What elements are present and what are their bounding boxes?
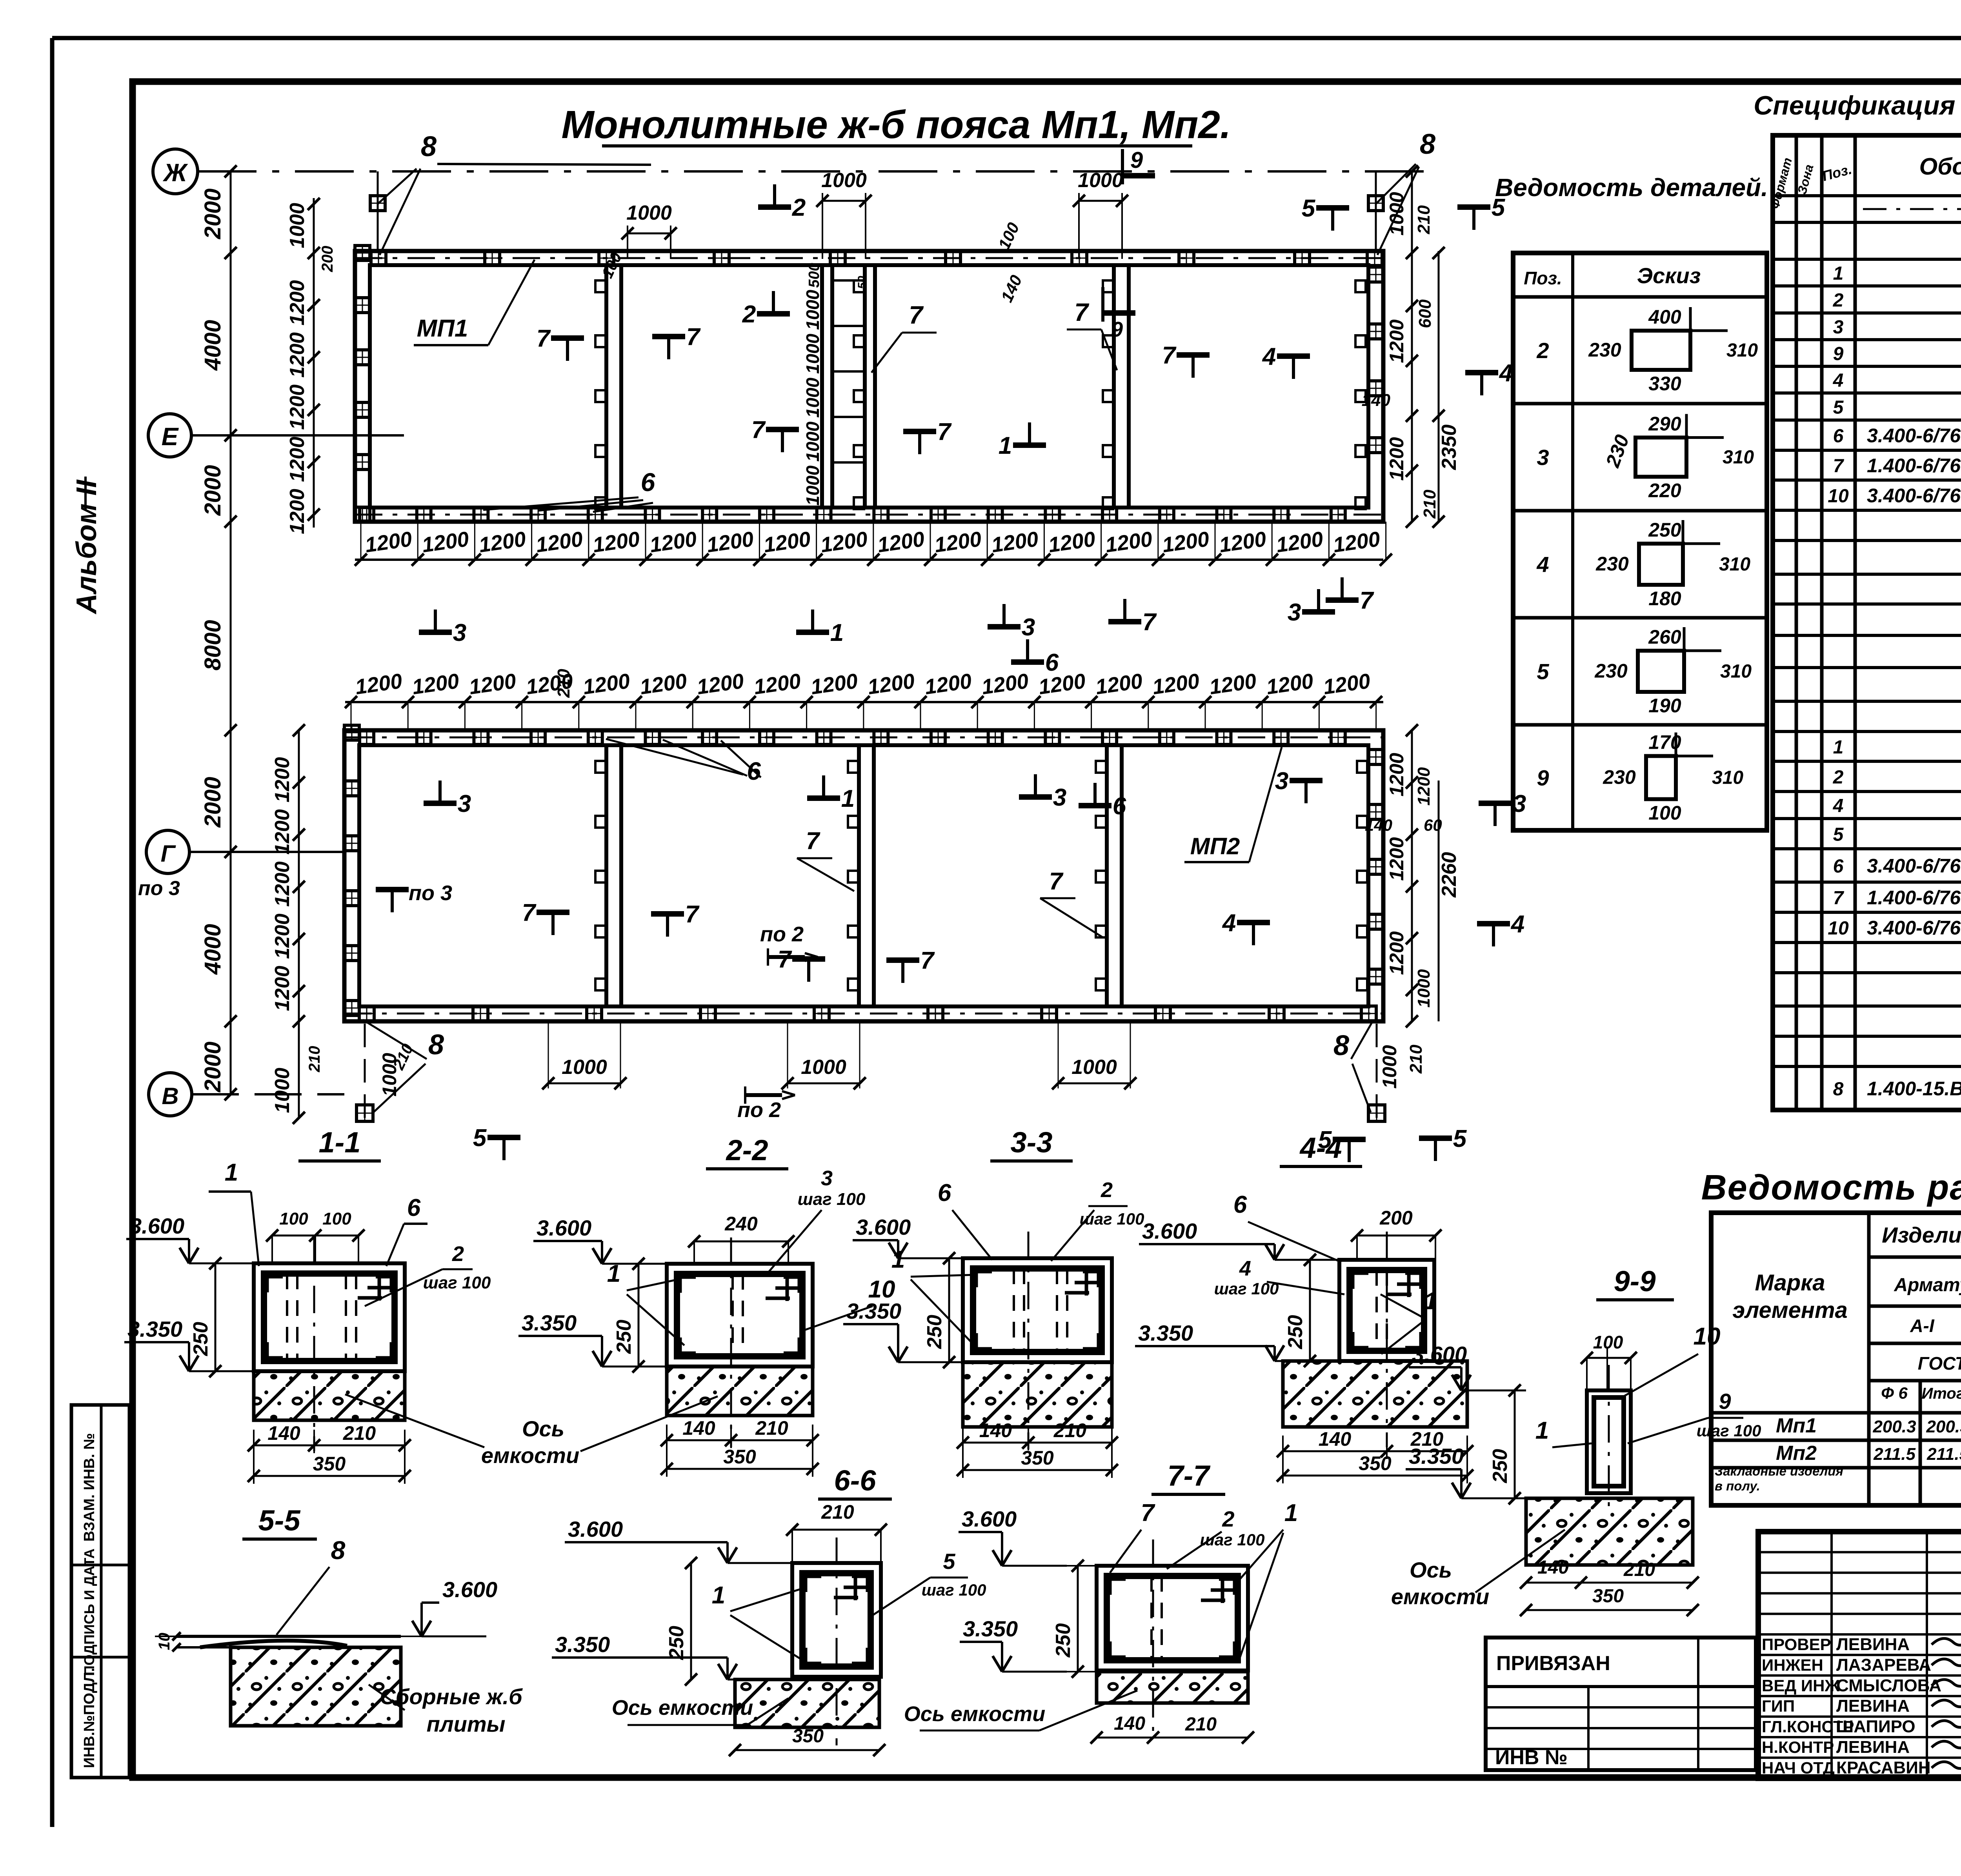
svg-text:Мп1: Мп1	[1776, 1414, 1817, 1437]
svg-text:7: 7	[1049, 868, 1064, 895]
embedded plates right wall	[1368, 267, 1383, 282]
svg-text:1: 1	[1833, 263, 1844, 284]
top small dims 1000	[628, 233, 671, 235]
svg-text:5: 5	[1833, 824, 1844, 845]
svg-text:ШАПИРО: ШАПИРО	[1836, 1717, 1916, 1736]
svg-text:230: 230	[1594, 660, 1628, 682]
svg-text:А-I: А-I	[1910, 1316, 1935, 1336]
privyazan table	[1486, 1638, 1756, 1770]
svg-text:1200: 1200	[1386, 837, 1408, 881]
svg-text:210: 210	[1185, 1714, 1217, 1735]
svg-text:240: 240	[724, 1213, 758, 1235]
svg-text:Поз.: Поз.	[1524, 268, 1562, 288]
svg-text:230: 230	[1603, 766, 1636, 788]
svg-text:шаг 100: шаг 100	[423, 1273, 491, 1292]
svg-text:250: 250	[1284, 1315, 1307, 1350]
svg-text:7: 7	[522, 899, 537, 926]
svg-text:1000: 1000	[802, 421, 823, 462]
svg-text:1: 1	[891, 1246, 905, 1273]
svg-text:210: 210	[1420, 489, 1439, 519]
svg-text:1: 1	[712, 1582, 725, 1609]
svg-text:3.350: 3.350	[1409, 1444, 1464, 1468]
svg-text:1200: 1200	[1414, 767, 1433, 806]
svg-text:140: 140	[1362, 391, 1391, 410]
axis Г circle	[146, 830, 189, 873]
svg-text:10: 10	[1694, 1323, 1721, 1350]
svg-text:4: 4	[1536, 552, 1549, 577]
svg-text:шаг 100: шаг 100	[1697, 1421, 1761, 1440]
svg-text:250: 250	[613, 1320, 635, 1354]
svg-text:210: 210	[1414, 205, 1433, 235]
markers inside bottom plan	[376, 887, 409, 892]
svg-text:1: 1	[999, 432, 1012, 459]
svg-text:140: 140	[1365, 816, 1392, 834]
svg-text:Ось емкости: Ось емкости	[904, 1702, 1045, 1726]
svg-text:50: 50	[856, 276, 869, 289]
svg-text:170: 170	[1648, 731, 1681, 753]
svg-text:1200: 1200	[271, 913, 294, 959]
svg-text:5: 5	[1537, 659, 1549, 684]
svg-text:200: 200	[1379, 1207, 1413, 1229]
svg-text:по 3: по 3	[138, 877, 180, 900]
top plan dividers	[604, 265, 608, 508]
svg-text:310: 310	[1726, 340, 1758, 361]
top plan walls МП1	[355, 251, 1383, 522]
svg-text:7-7: 7-7	[1168, 1459, 1211, 1492]
svg-text:140: 140	[1114, 1713, 1145, 1734]
svg-text:210: 210	[554, 669, 573, 698]
svg-text:8: 8	[421, 131, 437, 162]
svg-text:1000: 1000	[802, 289, 823, 330]
svg-text:5: 5	[943, 1549, 955, 1574]
embedded plates top wall	[371, 251, 386, 266]
svg-text:3: 3	[821, 1166, 833, 1190]
svg-text:1: 1	[1284, 1499, 1298, 1527]
markers between plans	[419, 630, 452, 635]
svg-text:210: 210	[1053, 1419, 1087, 1441]
svg-text:ЛЕВИНА: ЛЕВИНА	[1836, 1696, 1910, 1716]
svg-text:230: 230	[1588, 339, 1621, 361]
svg-text:250: 250	[1052, 1623, 1075, 1658]
svg-text:Монолитные ж-б пояса Мп1, Мп2.: Монолитные ж-б пояса Мп1, Мп2.	[561, 103, 1231, 147]
svg-text:210: 210	[1623, 1559, 1655, 1580]
svg-text:1: 1	[607, 1260, 620, 1287]
svg-text:140: 140	[267, 1422, 300, 1444]
svg-text:1: 1	[841, 785, 855, 812]
svg-text:3-3: 3-3	[1011, 1126, 1053, 1159]
svg-text:210: 210	[306, 1046, 323, 1073]
svg-text:310: 310	[1712, 768, 1743, 788]
svg-text:3: 3	[1275, 768, 1288, 795]
svg-text:1.400-15.В1.420-03: 1.400-15.В1.420-03	[1867, 1078, 1961, 1100]
svg-text:3.600: 3.600	[129, 1214, 184, 1238]
svg-text:200: 200	[319, 246, 336, 273]
svg-text:9: 9	[1719, 1389, 1731, 1414]
embedded plates bottom wall	[360, 508, 374, 522]
svg-text:3.350: 3.350	[963, 1616, 1018, 1641]
svg-text:1: 1	[1535, 1417, 1549, 1444]
svg-text:100: 100	[322, 1209, 351, 1228]
svg-text:8: 8	[1833, 1079, 1844, 1100]
svg-text:3: 3	[1022, 614, 1035, 641]
axis В circle	[149, 1073, 192, 1116]
bottom plan dividers	[604, 745, 608, 1006]
svg-text:емкости: емкости	[481, 1443, 579, 1468]
svg-text:3.600: 3.600	[1412, 1342, 1467, 1367]
svg-text:Марка: Марка	[1755, 1270, 1825, 1296]
embedded plates left wall bottom plan	[344, 725, 359, 740]
svg-text:3.350: 3.350	[127, 1317, 182, 1341]
steel table grid	[1711, 1213, 1961, 1505]
svg-text:8: 8	[331, 1536, 346, 1565]
svg-text:ИНВ.№ПОДЛ.: ИНВ.№ПОДЛ.	[81, 1668, 98, 1768]
svg-text:1000: 1000	[286, 203, 309, 248]
svg-text:210: 210	[343, 1422, 376, 1444]
svg-text:1000: 1000	[801, 1056, 846, 1079]
svg-text:1200: 1200	[286, 437, 309, 482]
svg-text:1.400-6/76 Вып.1: 1.400-6/76 Вып.1	[1867, 887, 1961, 909]
svg-text:3.600: 3.600	[856, 1215, 911, 1239]
svg-text:310: 310	[1719, 554, 1750, 575]
svg-text:3: 3	[1288, 599, 1301, 626]
svg-text:9: 9	[1130, 147, 1143, 173]
svg-text:3.400-6/76: 3.400-6/76	[1867, 855, 1961, 877]
svg-text:500: 500	[806, 263, 822, 287]
svg-text:6: 6	[1113, 793, 1126, 820]
svg-text:Эскиз: Эскиз	[1637, 263, 1701, 288]
svg-text:210: 210	[755, 1417, 788, 1439]
svg-text:2000: 2000	[200, 777, 226, 828]
svg-text:5: 5	[1833, 397, 1844, 418]
svg-text:5-5: 5-5	[258, 1504, 301, 1537]
svg-text:600: 600	[1415, 299, 1435, 328]
svg-text:Г: Г	[161, 841, 176, 867]
axis Ж circle	[153, 149, 198, 194]
left dim chain of top plan	[230, 171, 232, 547]
embedded plates right wall bottom plan	[1368, 750, 1383, 764]
svg-text:310: 310	[1723, 447, 1754, 468]
svg-text:230: 230	[1595, 553, 1629, 575]
svg-text:ПРИВЯЗАН: ПРИВЯЗАН	[1496, 1652, 1610, 1675]
divider plate notches	[595, 280, 606, 292]
svg-text:ГОСТ 5781-82: ГОСТ 5781-82	[1918, 1353, 1961, 1374]
svg-text:7: 7	[920, 947, 935, 974]
svg-text:260: 260	[1648, 626, 1681, 648]
svg-text:Изделия арматурные: Изделия арматурные	[1882, 1223, 1961, 1247]
svg-text:250: 250	[923, 1315, 946, 1349]
divider plate notches bottom plan	[595, 761, 606, 773]
svg-text:Ведомость деталей.: Ведомость деталей.	[1495, 173, 1768, 202]
svg-text:1200: 1200	[271, 966, 294, 1011]
svg-text:1200: 1200	[1386, 319, 1408, 363]
svg-text:250: 250	[1489, 1449, 1512, 1483]
svg-text:211.5: 211.5	[1873, 1445, 1916, 1464]
svg-text:1000: 1000	[802, 333, 823, 374]
svg-text:3.600: 3.600	[1142, 1219, 1197, 1243]
svg-text:3: 3	[1537, 445, 1549, 470]
svg-text:Ось: Ось	[522, 1416, 564, 1441]
section markers inside top plan	[551, 335, 584, 341]
svg-text:Закладные изделия: Закладные изделия	[1715, 1464, 1843, 1478]
svg-text:2: 2	[452, 1242, 464, 1266]
svg-text:3: 3	[1833, 317, 1844, 338]
svg-text:2-2: 2-2	[726, 1134, 768, 1166]
specification table grid	[1773, 135, 1961, 1110]
svg-text:190: 190	[1648, 695, 1681, 717]
svg-text:Обозначение: Обозначение	[1919, 153, 1961, 180]
svg-text:400: 400	[1648, 306, 1681, 328]
svg-text:1200: 1200	[1386, 437, 1408, 480]
section marker 9 top	[1121, 149, 1124, 184]
svg-text:100: 100	[279, 1209, 308, 1228]
svg-text:350: 350	[792, 1726, 824, 1747]
svg-text:ЛЕВИНА: ЛЕВИНА	[1836, 1738, 1910, 1757]
svg-text:Н.КОНТР: Н.КОНТР	[1762, 1738, 1834, 1756]
right dim chain bottom plan	[1411, 730, 1413, 1021]
svg-text:330: 330	[1648, 373, 1681, 395]
svg-text:ИНВ №: ИНВ №	[1495, 1746, 1568, 1769]
svg-text:5: 5	[473, 1125, 487, 1152]
svg-text:200.3: 200.3	[1926, 1417, 1961, 1436]
svg-text:5: 5	[1453, 1125, 1467, 1152]
section markers 5 top-right	[1316, 205, 1349, 211]
right dim chains of top plan	[1411, 171, 1413, 522]
svg-text:180: 180	[1648, 588, 1681, 610]
svg-text:в полу.: в полу.	[1715, 1479, 1760, 1493]
svg-text:211.5: 211.5	[1926, 1445, 1961, 1464]
svg-text:6: 6	[1233, 1191, 1247, 1218]
svg-text:3.400-6/76: 3.400-6/76	[1867, 485, 1961, 507]
svg-text:8: 8	[1333, 1030, 1349, 1061]
svg-text:емкости: емкости	[1391, 1584, 1489, 1609]
svg-text:4: 4	[1239, 1257, 1251, 1280]
svg-text:СМЫСЛОВА: СМЫСЛОВА	[1836, 1676, 1941, 1695]
svg-text:4: 4	[1833, 796, 1844, 817]
svg-text:ЛАЗАРЕВА: ЛАЗАРЕВА	[1836, 1655, 1931, 1674]
svg-text:ЛЕВИНА: ЛЕВИНА	[1836, 1635, 1910, 1654]
top dim row of bottom plan	[345, 701, 1383, 703]
svg-text:6: 6	[407, 1194, 421, 1221]
markers 5 bottom plan	[488, 1135, 520, 1140]
svg-text:350: 350	[1021, 1447, 1054, 1469]
vedomost detaley table	[1513, 253, 1767, 830]
svg-text:Спецификация к монолитным ж-б: Спецификация к монолитным ж-б поясам Мп1…	[1754, 91, 1961, 120]
svg-text:7: 7	[1142, 609, 1157, 636]
svg-text:1: 1	[225, 1159, 238, 1186]
svg-text:1: 1	[1833, 737, 1844, 758]
svg-text:1000: 1000	[1414, 969, 1433, 1008]
svg-text:7: 7	[1833, 456, 1845, 477]
svg-text:140: 140	[1537, 1557, 1569, 1578]
svg-text:1000: 1000	[821, 169, 867, 192]
svg-text:7: 7	[909, 301, 924, 329]
svg-text:7: 7	[1833, 888, 1845, 909]
svg-text:100: 100	[1648, 802, 1681, 824]
svg-text:7: 7	[751, 417, 766, 444]
svg-text:1000: 1000	[1379, 1045, 1401, 1088]
svg-text:1200: 1200	[1386, 931, 1408, 975]
svg-text:1200: 1200	[286, 384, 309, 430]
svg-text:3.350: 3.350	[846, 1299, 901, 1323]
svg-text:шаг 100: шаг 100	[798, 1190, 866, 1209]
svg-text:2000: 2000	[200, 1041, 226, 1092]
svg-text:4: 4	[1262, 343, 1276, 370]
svg-text:8: 8	[428, 1029, 444, 1061]
svg-text:6-6: 6-6	[834, 1464, 877, 1497]
svg-text:350: 350	[723, 1446, 756, 1468]
svg-text:ПРОВЕР: ПРОВЕР	[1762, 1635, 1831, 1654]
svg-text:7: 7	[806, 828, 820, 855]
svg-text:Ж: Ж	[162, 158, 188, 187]
svg-text:шаг 100: шаг 100	[922, 1581, 986, 1599]
svg-text:210: 210	[1406, 1044, 1426, 1074]
svg-text:10: 10	[1828, 918, 1849, 939]
svg-text:Ведомость расхода стали на эле: Ведомость расхода стали на элемент, кг	[1701, 1168, 1961, 1207]
svg-text:4: 4	[1833, 370, 1844, 391]
svg-text:ИНЖЕН: ИНЖЕН	[1762, 1656, 1823, 1674]
svg-text:140: 140	[1319, 1428, 1352, 1450]
svg-text:6: 6	[1833, 856, 1844, 877]
svg-text:ПОДПИСЬ И ДАТА: ПОДПИСЬ И ДАТА	[81, 1548, 97, 1676]
svg-text:4: 4	[1222, 910, 1236, 937]
svg-text:3: 3	[458, 790, 471, 817]
svg-text:1-1: 1-1	[319, 1126, 361, 1159]
svg-text:1200: 1200	[286, 332, 309, 378]
svg-text:7: 7	[1141, 1499, 1155, 1527]
embedded plates left wall	[355, 246, 370, 260]
svg-text:4000: 4000	[200, 320, 226, 371]
svg-text:2350: 2350	[1438, 424, 1461, 470]
svg-text:250: 250	[1648, 519, 1681, 541]
svg-text:9: 9	[1833, 344, 1844, 364]
axis Е circle	[148, 414, 191, 457]
svg-text:1.400-6/76 Вып.1: 1.400-6/76 Вып.1	[1867, 455, 1961, 477]
svg-text:4-4: 4-4	[1299, 1132, 1342, 1164]
bottom plan walls МП2	[344, 730, 1383, 1021]
svg-text:Арматура класса: Арматура класса	[1894, 1275, 1961, 1296]
svg-text:Мп2: Мп2	[1776, 1442, 1817, 1465]
svg-text:ГИП: ГИП	[1762, 1697, 1795, 1715]
svg-text:7: 7	[778, 946, 792, 973]
svg-text:350: 350	[1592, 1586, 1624, 1607]
svg-text:6: 6	[1045, 649, 1059, 676]
title block frame	[1758, 1532, 1961, 1778]
svg-text:210: 210	[821, 1501, 854, 1523]
svg-text:4000: 4000	[200, 924, 226, 975]
svg-text:по 3: по 3	[409, 881, 452, 905]
svg-text:2: 2	[742, 301, 756, 328]
svg-text:по 2: по 2	[760, 923, 804, 946]
title block signature grid	[1758, 1551, 1961, 1553]
svg-text:7: 7	[937, 419, 952, 446]
svg-text:1200: 1200	[286, 489, 309, 534]
svg-text:1000: 1000	[271, 1068, 294, 1113]
svg-text:3.400-6/76: 3.400-6/76	[1867, 917, 1961, 939]
svg-text:3.350: 3.350	[555, 1632, 610, 1657]
svg-text:Ф 6: Ф 6	[1881, 1384, 1908, 1402]
svg-text:2000: 2000	[200, 188, 226, 239]
svg-text:Ось емкости: Ось емкости	[612, 1696, 753, 1720]
svg-text:350: 350	[313, 1453, 346, 1475]
svg-text:Сборные ж.б: Сборные ж.б	[380, 1684, 523, 1709]
svg-text:МП2: МП2	[1190, 833, 1240, 859]
svg-text:3.400-6/76: 3.400-6/76	[1867, 425, 1961, 447]
svg-text:1200: 1200	[271, 861, 294, 907]
left stamp strip	[71, 1405, 129, 1778]
svg-text:7: 7	[1162, 342, 1177, 369]
bottom dim row of top plan	[355, 559, 1383, 561]
svg-text:1200: 1200	[271, 757, 294, 802]
svg-text:1000: 1000	[562, 1056, 607, 1079]
svg-text:1000: 1000	[1071, 1056, 1117, 1079]
svg-text:1000: 1000	[802, 465, 823, 506]
svg-text:4: 4	[1499, 360, 1513, 387]
svg-text:6: 6	[938, 1179, 951, 1206]
svg-text:1200: 1200	[286, 280, 309, 326]
left dim chain bottom plan	[298, 730, 300, 1118]
svg-text:10: 10	[1828, 486, 1849, 507]
svg-text:8: 8	[1420, 129, 1435, 160]
svg-text:2: 2	[792, 194, 806, 221]
svg-text:1200: 1200	[1386, 753, 1408, 796]
svg-text:1: 1	[1424, 1288, 1437, 1315]
axis Ж line	[198, 170, 1428, 173]
svg-text:4: 4	[1510, 911, 1524, 938]
svg-text:МП1: МП1	[417, 315, 468, 342]
svg-text:2000: 2000	[200, 465, 226, 516]
svg-text:3: 3	[1053, 784, 1066, 811]
svg-text:2: 2	[1833, 290, 1844, 311]
svg-text:7: 7	[1074, 298, 1090, 326]
svg-text:ВЕД ИНЖ: ВЕД ИНЖ	[1762, 1676, 1840, 1695]
svg-text:200.3: 200.3	[1872, 1417, 1916, 1436]
svg-text:2: 2	[1101, 1178, 1113, 1202]
svg-text:КРАСАВИН: КРАСАВИН	[1836, 1758, 1931, 1777]
svg-text:9: 9	[1111, 318, 1123, 341]
svg-text:В: В	[162, 1083, 178, 1109]
svg-text:1000: 1000	[1386, 192, 1408, 235]
svg-text:1000: 1000	[802, 377, 823, 418]
svg-text:10: 10	[156, 1633, 173, 1650]
svg-text:3.350: 3.350	[522, 1310, 577, 1335]
svg-text:элемента: элемента	[1732, 1297, 1848, 1323]
svg-text:Е: Е	[162, 422, 179, 451]
svg-text:2: 2	[1536, 338, 1549, 363]
svg-text:140: 140	[979, 1419, 1012, 1441]
svg-text:100: 100	[1593, 1332, 1623, 1352]
svg-text:140: 140	[682, 1417, 715, 1439]
svg-text:3: 3	[453, 619, 466, 646]
svg-text:Ось: Ось	[1410, 1558, 1452, 1582]
svg-text:1: 1	[830, 619, 844, 646]
svg-text:ВЗАМ. ИНВ. №: ВЗАМ. ИНВ. №	[81, 1433, 98, 1542]
svg-text:220: 220	[1648, 480, 1681, 502]
svg-text:250: 250	[665, 1626, 688, 1660]
svg-text:шаг 100: шаг 100	[1080, 1210, 1144, 1228]
svg-text:7: 7	[685, 901, 700, 928]
axis Е line	[191, 434, 404, 437]
section marker 9 inside bay3	[1101, 287, 1104, 322]
svg-text:2260: 2260	[1438, 852, 1461, 898]
svg-text:2: 2	[1222, 1507, 1234, 1531]
svg-text:1000: 1000	[1078, 169, 1123, 192]
corner dashes and posts bottom plan	[364, 1024, 366, 1122]
svg-text:3.350: 3.350	[1138, 1321, 1193, 1345]
ladder rungs of middle joint	[832, 279, 865, 282]
svg-text:9-9: 9-9	[1614, 1265, 1656, 1297]
svg-text:3.600: 3.600	[568, 1517, 623, 1541]
svg-text:3.600: 3.600	[537, 1215, 591, 1240]
